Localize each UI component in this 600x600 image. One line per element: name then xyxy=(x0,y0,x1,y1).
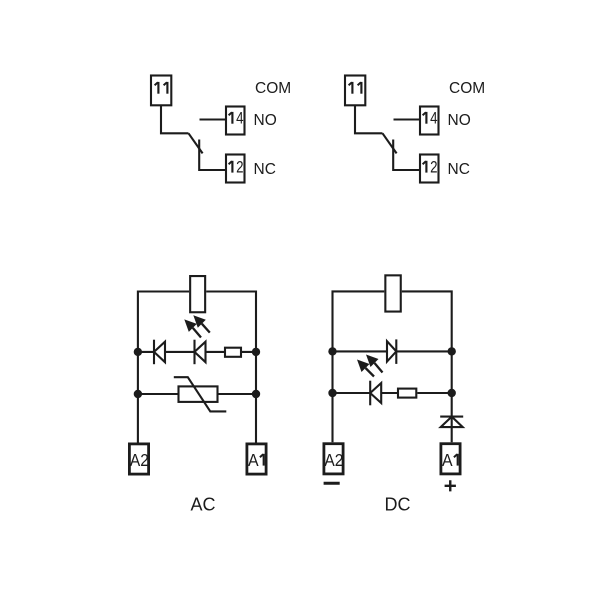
plus sign under A1 xyxy=(445,480,456,491)
pin label 14 (right) xyxy=(425,112,427,124)
wire NO fixed contact to terminal 14 (right) xyxy=(394,118,421,120)
svg-text:A2: A2 xyxy=(324,450,343,470)
svg-text:NO: NO xyxy=(254,112,277,129)
terminal box A1 (AC) xyxy=(247,444,266,474)
LED arrow 1 (DC) xyxy=(366,355,379,368)
terminal box A2 (AC) xyxy=(129,444,148,474)
coil (AC) xyxy=(190,276,205,312)
svg-text:COM: COM xyxy=(449,80,485,97)
wire row 2 (AC) xyxy=(138,393,256,395)
minus sign under A2 xyxy=(324,482,340,485)
varistor strike line (AC) xyxy=(174,377,227,411)
wire left bus and top wire (DC) xyxy=(333,291,385,442)
wire from terminal 11 (COM) xyxy=(161,105,189,133)
wire NO fixed contact to terminal 14 xyxy=(200,118,227,120)
switch blade (movable COM contact) xyxy=(189,133,203,153)
junction dot row1 left (DC) xyxy=(328,347,336,355)
svg-text:NO: NO xyxy=(448,112,471,129)
wire row 1 (DC) xyxy=(333,350,452,352)
pin label 11 (right) xyxy=(351,82,353,94)
terminal box A2 (DC) xyxy=(324,444,343,474)
svg-text:2: 2 xyxy=(236,159,243,177)
svg-text:COM: COM xyxy=(255,80,291,97)
wire row 1 (AC) xyxy=(138,351,256,353)
svg-text:NC: NC xyxy=(254,161,276,178)
LED arrow 1 (AC) xyxy=(193,315,206,328)
wire right bus and top wire (AC) xyxy=(206,292,256,443)
svg-text:A: A xyxy=(248,450,259,470)
diode cathode bar (DC freewheel) xyxy=(395,339,397,364)
reverse polarity diode triangle (DC) xyxy=(441,417,463,428)
svg-text:DC: DC xyxy=(385,494,411,514)
terminal box 12 (right) xyxy=(420,155,439,183)
terminal box A1 (DC) xyxy=(441,444,460,474)
svg-text:NC: NC xyxy=(448,161,470,178)
junction dot row2 left (AC) xyxy=(134,390,142,398)
wire left bus and top wire (AC) xyxy=(138,292,189,443)
junction dot row1 right (DC) xyxy=(448,347,456,355)
reverse polarity diode bar (DC) xyxy=(440,416,463,418)
wire NC fixed contact to terminal 12 (right) xyxy=(393,140,420,171)
junction dot row2 right (DC) xyxy=(448,389,456,397)
LED arrow 2 (AC) xyxy=(184,319,197,332)
LED diode cathode bar (AC) xyxy=(193,340,195,365)
junction dot row1 left (AC) xyxy=(134,348,142,356)
svg-text:2: 2 xyxy=(430,159,437,177)
wire NC fixed contact to terminal 12 xyxy=(199,140,226,171)
junction dot row2 right (AC) xyxy=(252,390,260,398)
svg-text:4: 4 xyxy=(236,110,243,128)
terminal box 11 xyxy=(151,76,171,106)
wire from terminal 11 (COM, right) xyxy=(355,105,383,133)
pin label 11 xyxy=(157,82,159,94)
wire right bus and top wire (DC) xyxy=(402,291,452,442)
resistor (DC) xyxy=(398,389,416,398)
switch blade (movable COM contact, right) xyxy=(383,133,397,153)
svg-text:A2: A2 xyxy=(130,450,149,470)
junction dot row2 left (DC) xyxy=(328,389,336,397)
terminal box 12 xyxy=(226,155,245,183)
LED diode triangle (AC) xyxy=(195,342,206,363)
varistor body (AC) xyxy=(179,386,218,402)
terminal box 11 (right) xyxy=(345,76,365,106)
pin label 12 xyxy=(231,161,233,173)
pin label 12 (right) xyxy=(425,161,427,173)
diode D1 cathode bar (AC) xyxy=(153,340,155,365)
terminal box 14 xyxy=(226,107,245,135)
diode D1 triangle (AC) xyxy=(154,342,165,363)
wire row 2 (DC) xyxy=(333,392,452,394)
pin label 14 xyxy=(231,112,233,124)
LED diode cathode bar (DC) xyxy=(369,381,371,406)
junction dot row1 right (AC) xyxy=(252,348,260,356)
terminal box 14 (right) xyxy=(420,107,439,135)
LED arrow 2 (DC) xyxy=(357,360,370,373)
svg-text:AC: AC xyxy=(190,494,215,514)
coil (DC) xyxy=(385,275,400,311)
svg-text:A: A xyxy=(442,450,453,470)
LED diode triangle (DC) xyxy=(370,383,381,403)
resistor (AC) xyxy=(225,348,241,357)
svg-text:4: 4 xyxy=(430,110,437,128)
diode triangle (DC freewheel) xyxy=(387,341,396,361)
